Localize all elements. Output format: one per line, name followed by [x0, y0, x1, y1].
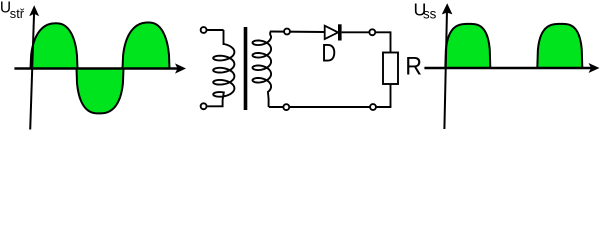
svg-text:R: R [405, 53, 422, 81]
svg-text:D: D [321, 40, 336, 68]
